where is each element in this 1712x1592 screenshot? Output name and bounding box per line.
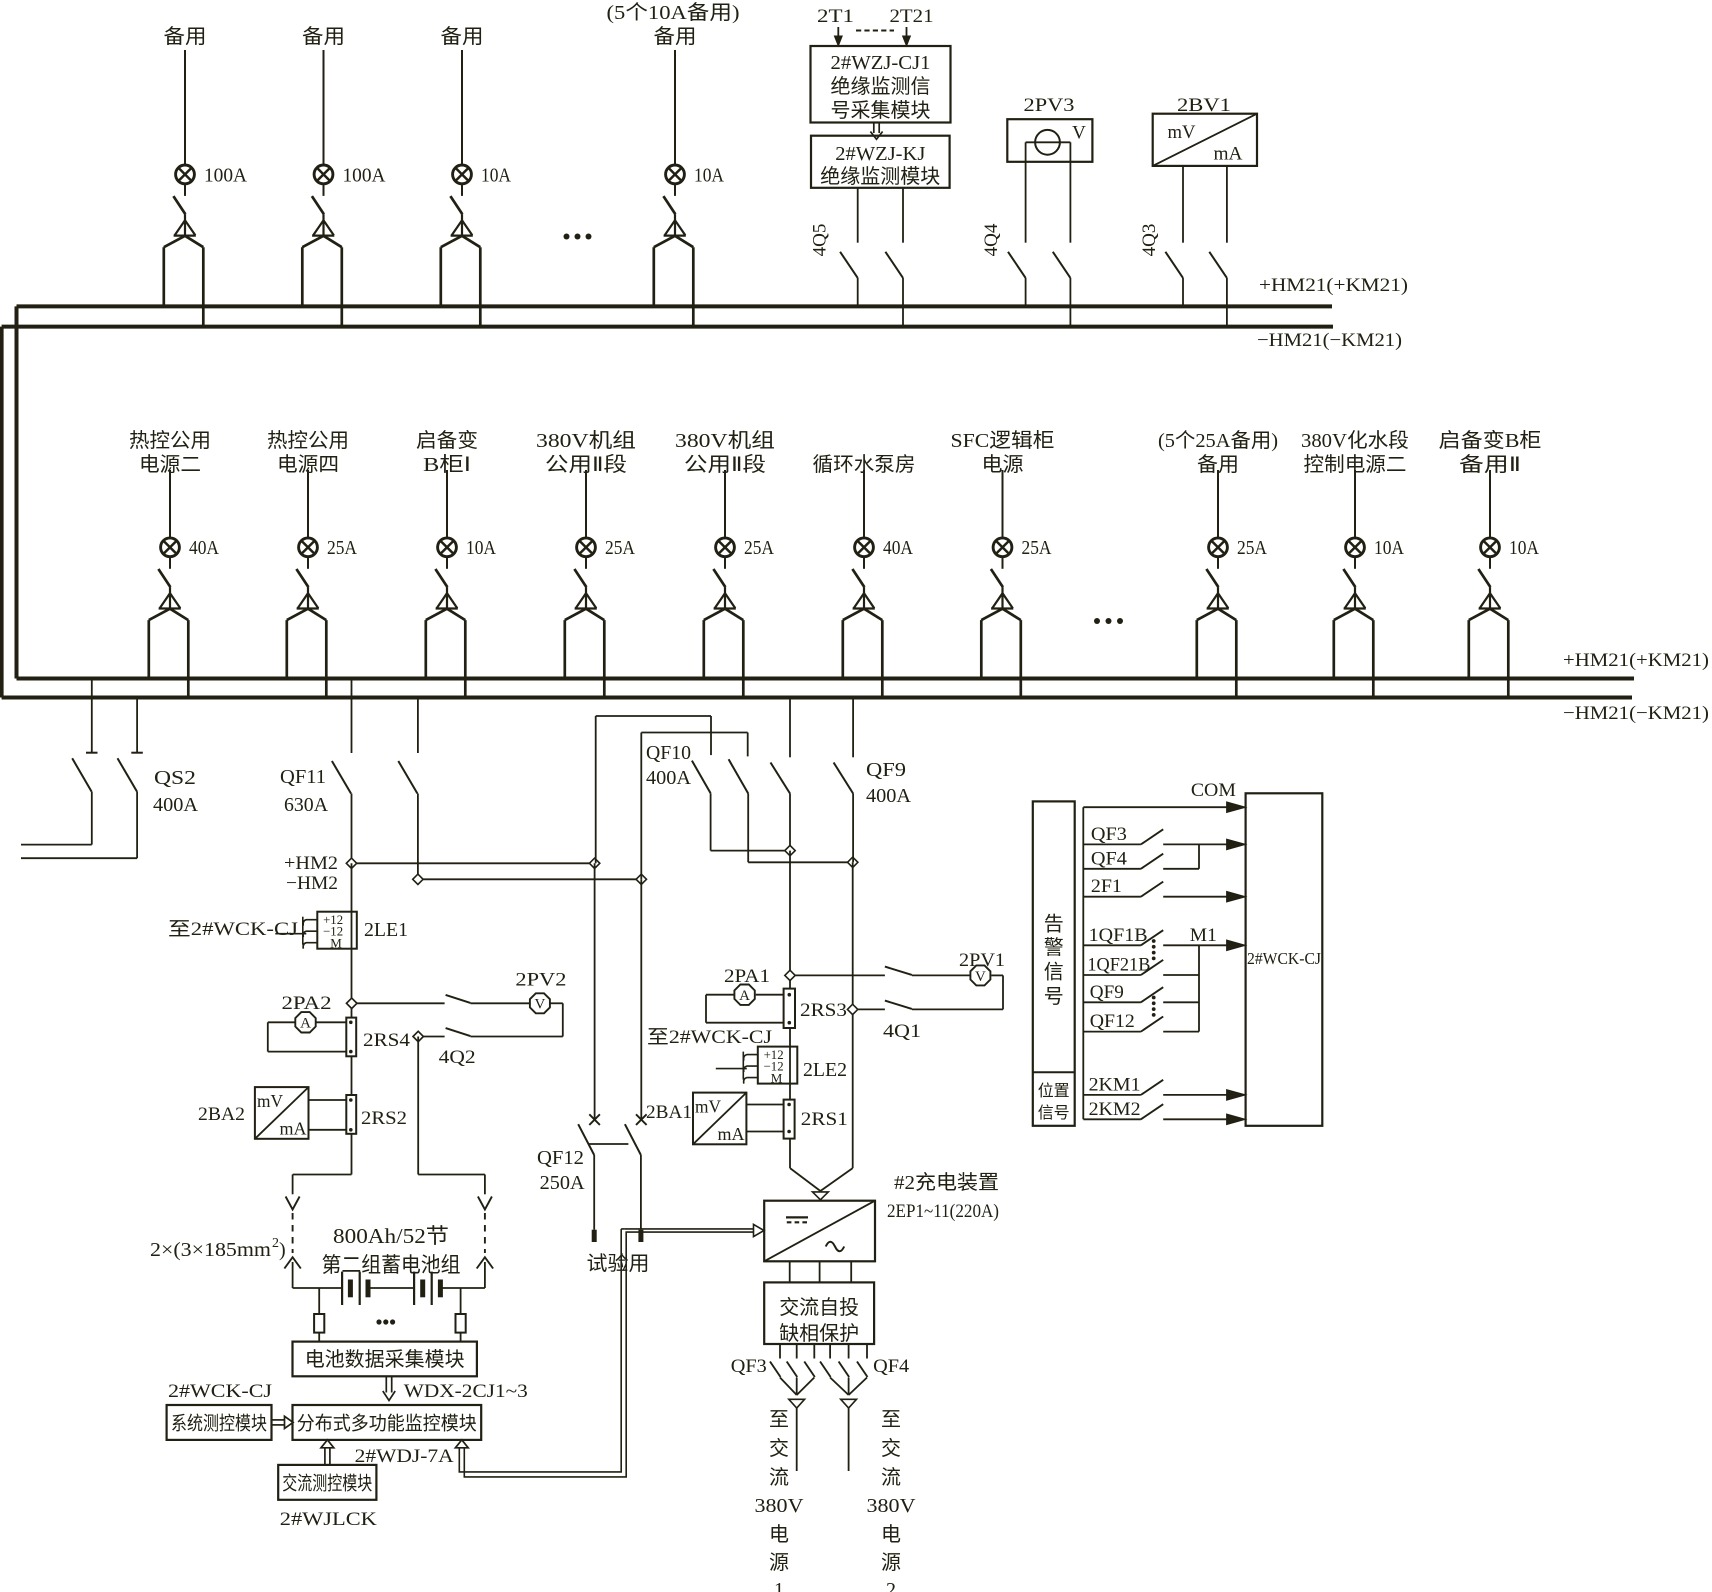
box alarm signal column — [1033, 801, 1075, 1125]
switch 4Q2 upper + meter 2PV2 — [347, 970, 567, 1037]
svg-text:流: 流 — [769, 1466, 789, 1489]
svg-text:QF12: QF12 — [1090, 1011, 1135, 1032]
meter 2PV3 voltmeter — [1007, 95, 1092, 162]
svg-text:QF3: QF3 — [1091, 824, 1127, 845]
svg-text:2#WJLCK: 2#WJLCK — [280, 1509, 377, 1530]
contact QF3 — [1083, 824, 1245, 850]
svg-text:A: A — [300, 1016, 311, 1032]
ammeter 2PA2 — [268, 993, 347, 1052]
wire contact rail — [1082, 807, 1084, 1119]
transducer 2BA1 mV/mA — [646, 1093, 784, 1145]
box 2#WCK-CJ controller — [1246, 793, 1323, 1126]
transducer 2BV1 mV/mA — [1153, 95, 1257, 166]
svg-text:2×(3×185mm: 2×(3×185mm — [150, 1239, 271, 1261]
feeder T2-3 启备变B柜Ⅰ 10A — [416, 429, 496, 699]
switch 4Q1 lower — [847, 1001, 1003, 1042]
feeder T2-7 SFC逻辑柜电源 25A — [951, 429, 1055, 699]
svg-text:mV: mV — [1168, 122, 1196, 143]
label to 2#WCK-CJ (left) — [168, 919, 298, 940]
svg-text:+HM2: +HM2 — [284, 853, 338, 874]
wire QF11 left pole down — [351, 863, 353, 1017]
transducer 2BA2 mV/mA — [198, 1087, 346, 1139]
breaker QF9 400A — [834, 700, 912, 863]
svg-text:位置: 位置 — [1038, 1082, 1070, 1100]
svg-text:至: 至 — [769, 1409, 789, 1431]
svg-text:400A: 400A — [646, 767, 692, 789]
wire right battery riser — [418, 1037, 485, 1175]
svg-text:−HM21(−KM21): −HM21(−KM21) — [1563, 703, 1709, 724]
switch 4Q5 — [810, 188, 904, 325]
svg-text:+HM21(+KM21): +HM21(+KM21) — [1259, 275, 1408, 296]
svg-text:400A: 400A — [153, 794, 199, 816]
breaker QF3 — [731, 1344, 815, 1471]
label 2T1 — [817, 6, 854, 27]
svg-text:250A: 250A — [540, 1172, 586, 1194]
svg-text:2EP1~11(220A): 2EP1~11(220A) — [887, 1201, 999, 1222]
shunt 2RS3 — [784, 989, 847, 1028]
svg-text:QF4: QF4 — [873, 1356, 910, 1377]
wire -charger column — [852, 862, 854, 1168]
wire double arrow U-CJ1 to U-KJ — [870, 123, 882, 139]
cable link battery - — [477, 1175, 493, 1289]
contact QF9 — [1083, 982, 1199, 1003]
feeder T1-3 备用 10A — [441, 25, 512, 326]
svg-text:2RS3: 2RS3 — [800, 1000, 847, 1021]
svg-text:源: 源 — [769, 1551, 789, 1574]
svg-text:mV: mV — [695, 1097, 721, 1117]
svg-text:4Q3: 4Q3 — [1139, 224, 1160, 257]
svg-text:630A: 630A — [284, 794, 329, 816]
contact 1QF21B — [1083, 955, 1199, 976]
svg-text:380V机组: 380V机组 — [536, 429, 636, 452]
wire QF12 right riser — [640, 879, 642, 1119]
svg-text:mA: mA — [280, 1119, 307, 1139]
feeder T2-10 启备变B柜备用Ⅱ 10A — [1439, 429, 1542, 699]
contact QF12 — [1083, 1011, 1199, 1032]
wire bus wrap left - — [0, 327, 4, 698]
svg-text:QF9: QF9 — [866, 759, 906, 781]
svg-text:2KM1: 2KM1 — [1089, 1074, 1141, 1095]
cable link battery + — [284, 1175, 300, 1289]
dots: more tier-2 feeders — [1094, 618, 1123, 624]
svg-text:+HM21(+KM21): +HM21(+KM21) — [1563, 650, 1709, 671]
svg-text:4Q1: 4Q1 — [883, 1021, 921, 1042]
svg-text:): ) — [279, 1239, 286, 1261]
svg-text:交: 交 — [881, 1437, 901, 1460]
breaker QF4 — [820, 1344, 910, 1471]
svg-text:10A: 10A — [1509, 537, 1539, 559]
wire hollow up-arrow comm loop — [455, 1229, 630, 1477]
svg-text:2RS1: 2RS1 — [801, 1109, 848, 1130]
svg-text:号采集模块: 号采集模块 — [831, 99, 931, 122]
wire comm arrow into charger — [625, 1224, 764, 1236]
svg-text:−HM2: −HM2 — [286, 873, 338, 894]
svg-text:4Q4: 4Q4 — [981, 223, 1002, 256]
svg-text:SFC逻辑柜: SFC逻辑柜 — [951, 429, 1055, 452]
svg-text:V: V — [975, 969, 986, 985]
svg-text:mA: mA — [1214, 144, 1243, 165]
contact 2F1 — [1083, 876, 1245, 902]
feeder T2-6 循环水泵房 40A — [813, 453, 916, 699]
svg-text:信号: 信号 — [1038, 1104, 1070, 1122]
svg-text:备用: 备用 — [302, 25, 345, 48]
svg-text:4Q2: 4Q2 — [439, 1047, 476, 1068]
svg-text:25A: 25A — [605, 537, 635, 559]
svg-text:绝缘监测模块: 绝缘监测模块 — [820, 165, 940, 188]
label 2#WCK-CJ (bottom) — [168, 1381, 272, 1402]
label 2#WDJ-7A — [355, 1446, 454, 1467]
fuse battery right — [456, 1288, 466, 1342]
svg-text:25A: 25A — [1237, 537, 1267, 559]
svg-text:源: 源 — [881, 1551, 901, 1574]
bus +HM21(+KM21) tier1 — [17, 275, 1409, 306]
wire left battery riser — [293, 1134, 352, 1175]
wire hollow arrow right — [272, 1416, 294, 1428]
switch 4Q2 lower — [413, 1028, 563, 1068]
svg-text:QF4: QF4 — [1091, 848, 1128, 869]
svg-text:380V: 380V — [755, 1495, 805, 1517]
label to 2#WCK-CJ (right) — [647, 1027, 772, 1048]
svg-text:100A: 100A — [343, 165, 387, 187]
wire double arrow WDX — [383, 1376, 395, 1400]
svg-text:热控公用: 热控公用 — [267, 429, 349, 452]
svg-text:25A: 25A — [1022, 537, 1052, 559]
svg-text:25A: 25A — [744, 537, 774, 559]
breaker QF12 250A (test) — [537, 1114, 647, 1242]
svg-text:2T21: 2T21 — [890, 6, 934, 27]
svg-text:mV: mV — [257, 1091, 283, 1111]
shunt 2RS4 — [346, 1018, 410, 1057]
label WDX-2CJ1~3 — [404, 1381, 528, 1402]
svg-text:2#WZJ-KJ: 2#WZJ-KJ — [835, 143, 925, 165]
svg-text:380V化水段: 380V化水段 — [1301, 429, 1409, 452]
svg-text:1: 1 — [774, 1579, 784, 1592]
label to AC 380V source 2 — [867, 1409, 917, 1592]
svg-text:2PV2: 2PV2 — [515, 970, 566, 991]
fuse battery left — [314, 1288, 324, 1342]
dots: more tier-1 feeders — [564, 234, 592, 240]
disconnector QS2 400A — [21, 681, 199, 859]
box system monitoring module — [167, 1405, 272, 1440]
svg-text:25A: 25A — [327, 537, 357, 559]
svg-text:2: 2 — [272, 1236, 279, 1251]
svg-text:2LE1: 2LE1 — [364, 919, 408, 941]
svg-text:2#WZJ-CJ1: 2#WZJ-CJ1 — [831, 52, 931, 74]
label 2T21 — [890, 6, 934, 27]
svg-text:电: 电 — [769, 1523, 789, 1546]
wire funnel into charger — [790, 1168, 853, 1200]
label to AC 380V source 1 — [755, 1409, 805, 1592]
charger 2EP1~11 #2 — [764, 1171, 999, 1261]
switch 4Q1 upper + meter 2PV1 — [785, 950, 1005, 1009]
svg-text:1QF1B: 1QF1B — [1089, 925, 1148, 946]
contact 2KM1 — [1083, 1074, 1245, 1100]
box battery data acquisition module — [293, 1342, 477, 1377]
svg-text:告: 告 — [1044, 913, 1064, 936]
contact QF4 — [1083, 844, 1199, 869]
wire below 2RS1 — [789, 1139, 791, 1169]
switch 4Q4 — [981, 223, 1070, 325]
svg-text:2LE2: 2LE2 — [803, 1059, 847, 1081]
feeder T2-1 热控公用电源二 40A — [129, 429, 219, 699]
svg-text:(5个25A备用): (5个25A备用) — [1158, 429, 1278, 452]
label 2#WJLCK — [280, 1509, 377, 1530]
wire 2T21 arrow — [903, 27, 911, 46]
contact 1QF1B + M1 — [1083, 925, 1245, 951]
svg-text:M: M — [330, 936, 342, 951]
svg-text:(5个10A备用): (5个10A备用) — [607, 1, 740, 24]
ammeter 2PA1 — [706, 966, 784, 1023]
svg-text:2KM2: 2KM2 — [1089, 1099, 1141, 1120]
svg-text:M: M — [771, 1070, 783, 1085]
svg-text:QF11: QF11 — [280, 766, 326, 788]
svg-text:V: V — [534, 997, 545, 1013]
svg-text:2RS4: 2RS4 — [363, 1030, 411, 1051]
wire 2BV1 leads — [1183, 166, 1227, 243]
svg-text:1QF21B: 1QF21B — [1087, 955, 1150, 976]
box AC auto transfer / phase-loss protection — [764, 1282, 874, 1345]
svg-text:M1: M1 — [1190, 925, 1217, 946]
svg-text:分布式多功能监控模块: 分布式多功能监控模块 — [297, 1413, 477, 1435]
wire column below 2RS3 — [789, 1028, 791, 1100]
box AC monitoring module — [278, 1465, 376, 1500]
svg-text:备用: 备用 — [441, 25, 484, 48]
svg-text:QF9: QF9 — [1090, 982, 1124, 1003]
svg-text:WDX-2CJ1~3: WDX-2CJ1~3 — [404, 1381, 528, 1402]
svg-text:2PV3: 2PV3 — [1024, 95, 1075, 116]
svg-text:启备变: 启备变 — [416, 429, 478, 452]
feeder T1-4 备用 10A — [607, 1, 740, 326]
svg-text:热控公用: 热控公用 — [129, 429, 211, 452]
wire COM arrow — [1083, 780, 1245, 813]
terminal block 2LE1 — [275, 912, 408, 951]
wire 2T1 arrow — [834, 27, 842, 46]
svg-text:交流测控模块: 交流测控模块 — [282, 1473, 372, 1495]
svg-text:400A: 400A — [866, 785, 912, 807]
svg-text:−HM21(−KM21): −HM21(−KM21) — [1257, 330, 1402, 351]
node battery + measuring — [347, 998, 357, 1008]
svg-text:信: 信 — [1044, 960, 1064, 983]
svg-text:备用: 备用 — [164, 25, 207, 48]
switch 4Q3 — [1139, 224, 1227, 325]
svg-text:10A: 10A — [466, 537, 496, 559]
svg-text:备用: 备用 — [654, 25, 697, 48]
svg-text:缺相保护: 缺相保护 — [779, 1322, 859, 1345]
wire hollow up-arrow from AC monitor — [321, 1440, 334, 1465]
svg-text:电: 电 — [881, 1523, 901, 1546]
feeder T1-1 备用 100A — [164, 25, 248, 326]
svg-text:4Q5: 4Q5 — [810, 224, 831, 257]
svg-text:10A: 10A — [1374, 537, 1404, 559]
svg-text:2BA1: 2BA1 — [646, 1102, 692, 1123]
shunt 2RS2 — [346, 1095, 407, 1134]
svg-text:QS2: QS2 — [154, 767, 196, 789]
svg-text:2RS2: 2RS2 — [361, 1108, 407, 1129]
breaker QF10 400A — [596, 700, 858, 880]
svg-text:COM: COM — [1191, 780, 1236, 801]
shunt 2RS1 — [784, 1100, 848, 1139]
node +HM2 rail — [284, 853, 600, 874]
bus -HM21(-KM21) tier1 — [2, 327, 1402, 351]
feeder T2-2 热控公用电源四 25A — [267, 429, 357, 699]
svg-text:40A: 40A — [189, 537, 219, 559]
svg-text:交流自投: 交流自投 — [779, 1296, 859, 1319]
svg-text:QF3: QF3 — [731, 1356, 767, 1377]
label test use — [587, 1252, 650, 1275]
label 2x(3x185mm2) — [150, 1236, 286, 1261]
feeder T2-8 (5个25A备用)备用 25A — [1158, 429, 1278, 699]
svg-text:2F1: 2F1 — [1091, 876, 1122, 897]
feeder T1-2 备用 100A — [302, 25, 386, 326]
svg-text:2BA2: 2BA2 — [198, 1104, 245, 1125]
feeder T2-9 380V化水段控制电源二 10A — [1301, 429, 1409, 699]
svg-text:至2#WCK-CJ: 至2#WCK-CJ — [168, 919, 298, 940]
svg-text:2#WCK-CJ: 2#WCK-CJ — [168, 1381, 272, 1402]
svg-text:警: 警 — [1044, 936, 1064, 959]
bus -HM21(-KM21) tier2 — [2, 698, 1709, 725]
feeder T2-4 380V机组公用Ⅱ段 25A — [536, 429, 636, 699]
box U-CJ1 2#WZJ-CJ1 insulation signal acquisition module — [811, 46, 951, 123]
dots contact group 2 — [1152, 996, 1156, 1017]
svg-text:2#WCK-CJ: 2#WCK-CJ — [1247, 949, 1321, 968]
wire dashes between 2T1 and 2T21 — [856, 30, 894, 32]
svg-text:QF10: QF10 — [646, 742, 691, 764]
bus +HM21(+KM21) tier2 — [17, 650, 1710, 679]
box U-KJ 2#WZJ-KJ insulation monitor module — [811, 136, 950, 188]
svg-text:2PV1: 2PV1 — [959, 950, 1005, 971]
svg-text:V: V — [1072, 123, 1086, 144]
svg-text:40A: 40A — [883, 537, 913, 559]
svg-text:流: 流 — [881, 1466, 901, 1489]
dots contact group 1 — [1152, 939, 1156, 960]
feeder T2-5 380V机组公用Ⅱ段 25A — [675, 429, 775, 699]
svg-text:380V: 380V — [867, 1495, 917, 1517]
wire 2PV3 leads — [1026, 142, 1071, 242]
terminal block 2LE2 — [716, 1047, 847, 1086]
svg-text:交: 交 — [769, 1437, 789, 1460]
svg-text:380V机组: 380V机组 — [675, 429, 775, 452]
wire charger to AC box stubs — [790, 1261, 852, 1282]
battery 800Ah/52 cells group 2 — [293, 1224, 485, 1325]
wire QF12 left riser — [594, 863, 596, 1119]
svg-text:#2充电装置: #2充电装置 — [894, 1171, 999, 1194]
wire bus wrap left + — [15, 306, 19, 678]
svg-text:电池数据采集模块: 电池数据采集模块 — [305, 1348, 465, 1371]
svg-text:100A: 100A — [204, 165, 248, 187]
svg-text:2PA2: 2PA2 — [282, 993, 332, 1014]
contact 2KM2 — [1083, 1099, 1245, 1125]
wire between shunts — [351, 1056, 353, 1095]
wire +charger column — [789, 851, 791, 989]
breaker QF11 630A — [280, 681, 418, 880]
node -HM2 rail — [286, 873, 647, 894]
svg-text:A: A — [739, 988, 750, 1004]
svg-text:系统测控模块: 系统测控模块 — [171, 1413, 267, 1435]
wire contact collector M1 — [1198, 945, 1200, 1031]
svg-text:启备变B柜: 启备变B柜 — [1439, 429, 1542, 452]
svg-text:至2#WCK-CJ: 至2#WCK-CJ — [647, 1027, 772, 1048]
svg-text:10A: 10A — [694, 165, 724, 187]
svg-text:试验用: 试验用 — [587, 1252, 650, 1275]
svg-text:至: 至 — [881, 1409, 901, 1431]
svg-text:QF12: QF12 — [537, 1147, 584, 1169]
svg-text:10A: 10A — [481, 165, 511, 187]
svg-text:mA: mA — [718, 1124, 745, 1144]
svg-text:800Ah/52节: 800Ah/52节 — [333, 1224, 449, 1248]
svg-text:绝缘监测信: 绝缘监测信 — [831, 75, 931, 98]
svg-text:2: 2 — [886, 1579, 896, 1592]
svg-text:号: 号 — [1044, 986, 1064, 1008]
box distributed multifunction monitoring module — [293, 1405, 482, 1440]
svg-text:2T1: 2T1 — [817, 6, 854, 27]
